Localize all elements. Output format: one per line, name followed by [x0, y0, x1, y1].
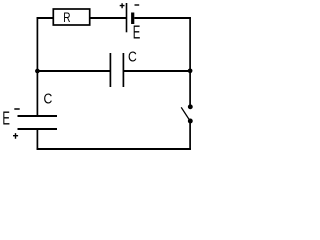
- svg-text:R: R: [63, 9, 71, 25]
- battery E1 negative short plate: [131, 13, 134, 25]
- wire battery to top-right corner: [134, 17, 191, 19]
- wire bottom: [37, 148, 191, 150]
- capacitor C1 right plate: [122, 53, 124, 87]
- svg-text:E: E: [2, 109, 10, 130]
- source E2 label E: [2, 109, 10, 130]
- wire resistor to battery: [90, 17, 127, 19]
- capacitor C2 label: [44, 91, 53, 107]
- capacitor C2 top plate: [18, 115, 58, 117]
- svg-text:C: C: [44, 91, 53, 107]
- wire middle branch left: [37, 70, 110, 72]
- source E2 minus sign: [14, 108, 19, 110]
- resistor R1 box: [53, 9, 89, 25]
- battery E1 label E: [133, 23, 141, 44]
- wire right side upper: [189, 17, 191, 105]
- wire left side upper: [36, 17, 38, 116]
- switch S1 lower contact: [188, 119, 193, 124]
- svg-text:E: E: [133, 23, 141, 44]
- wire right side lower: [189, 121, 191, 150]
- battery E1 minus sign: [135, 4, 140, 6]
- capacitor C2 bottom plate: [18, 128, 58, 130]
- wire middle branch right: [123, 70, 190, 72]
- switch S1 upper contact: [188, 104, 193, 109]
- battery E1 plus sign: [120, 3, 125, 8]
- node junction right: [188, 68, 193, 73]
- battery E1 positive long plate: [126, 3, 128, 32]
- switch S1 lever: [181, 107, 190, 120]
- capacitor C1 left plate: [109, 53, 111, 87]
- resistor R1 label: [63, 9, 71, 25]
- capacitor C1 label: [128, 49, 137, 65]
- wire top-left horizontal: [37, 17, 54, 19]
- svg-text:C: C: [128, 49, 137, 65]
- wire left side lower: [36, 129, 38, 150]
- node junction left: [35, 69, 40, 74]
- source E2 plus sign: [13, 133, 18, 139]
